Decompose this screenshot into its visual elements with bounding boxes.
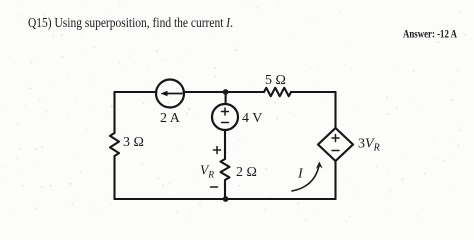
node A top junction	[223, 89, 229, 95]
current arrow I arrowhead	[316, 162, 323, 169]
wire top-left segment	[115, 91, 157, 93]
wire bottom	[115, 198, 336, 200]
svg-text:5 Ω: 5 Ω	[265, 73, 286, 88]
svg-text:3 Ω: 3 Ω	[123, 135, 144, 150]
resistor R1 3ohm zigzag	[110, 133, 119, 156]
svg-text:4 V: 4 V	[242, 111, 262, 126]
voltage source V1 plus sign	[222, 108, 229, 115]
svg-text:2 A: 2 A	[160, 111, 181, 126]
current arrow I curved	[292, 166, 319, 191]
svg-text:Q15) Using superposition, find: Q15) Using superposition, find the curre…	[28, 15, 233, 30]
wire middle stub from top node	[225, 92, 227, 104]
wire top-right segment	[291, 91, 336, 93]
wire top-middle segment	[184, 91, 265, 93]
dependent source D1 minus sign	[332, 150, 339, 152]
wire right side upper	[334, 92, 336, 129]
voltage source V1 circle	[212, 104, 238, 130]
current source I1 circle	[156, 80, 184, 108]
VR plus polarity mark	[214, 147, 221, 154]
resistor R2 5ohm zigzag	[264, 88, 291, 96]
node B bottom junction	[223, 196, 229, 202]
wire middle bottom	[224, 180, 226, 199]
svg-text:Answer: -12 A: Answer: -12 A	[403, 29, 458, 41]
resistor R3 2ohm zigzag	[221, 159, 230, 180]
dependent source D1 diamond	[318, 128, 353, 161]
VR minus polarity mark	[211, 186, 218, 188]
dependent source D1 plus sign	[332, 135, 339, 142]
current source I1 arrowhead	[161, 91, 168, 97]
wire right side lower	[334, 161, 336, 200]
wire left side upper	[113, 92, 115, 133]
svg-text:2 Ω: 2 Ω	[236, 165, 257, 180]
voltage source V1 minus sign	[222, 122, 229, 124]
current source I1 arrow shaft	[164, 93, 182, 95]
wire left side lower	[113, 156, 115, 199]
wire middle between sources	[224, 130, 226, 159]
